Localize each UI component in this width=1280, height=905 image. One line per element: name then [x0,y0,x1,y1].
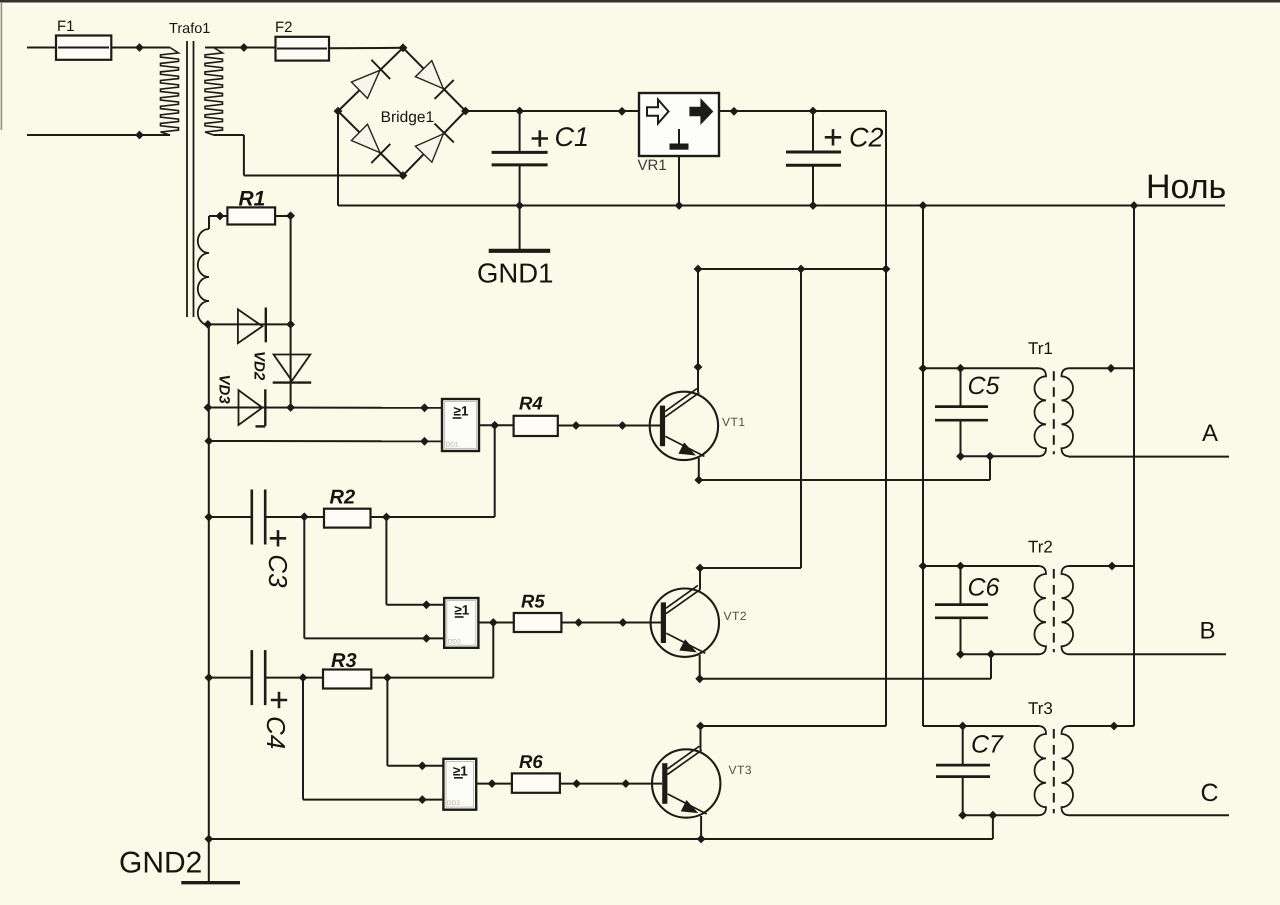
svg-text:VD3: VD3 [216,375,233,405]
node Tr3 secondary top pin [1110,722,1119,731]
svg-text:Tr1: Tr1 [1028,339,1053,358]
wire phase A output [1069,456,1230,458]
wire DD1 feedback drop [494,425,496,517]
node R1 right pin [286,211,295,220]
wire R1 right corner [275,216,291,408]
node VD3 anode junction [204,403,213,412]
node bus C3 junction [204,513,213,522]
node DD2 input1 pin [422,600,431,609]
node bridge left vertex [334,107,343,116]
svg-text:Trafo1: Trafo1 [169,21,210,37]
label Noll [1146,168,1226,206]
wire C2 bottom stub [812,165,814,205]
transformer Trafo1 primary winding [161,48,179,136]
node C4 right junction [299,673,308,682]
node C7 bottom junction [958,811,967,820]
wire Tr3 secondary top [1069,725,1135,727]
svg-text:VR1: VR1 [638,157,667,174]
voltage regulator VR1 [638,93,720,174]
wire Tr1 secondary top [1069,367,1135,369]
node C6 bottom junction [956,650,965,659]
wire neutral drop x1134 [1133,206,1135,727]
wire DD2 input1 tap [386,517,444,605]
node VT1 emitter feed junction [986,452,995,461]
node GND2 bus left junction [204,835,213,844]
diode VD1 [238,308,266,344]
wire DD2 output [478,622,513,624]
svg-text:R3: R3 [331,650,357,672]
svg-text:Tr3: Tr3 [1028,699,1053,718]
node VT1 collector top [694,265,703,274]
wire DD1 input1 [208,407,443,409]
node Tr2 top junction [919,562,928,571]
wire secondary1 to bridge bottom [244,135,403,176]
svg-text:≥1: ≥1 [453,763,468,778]
ground GND2 [119,847,240,883]
svg-text:VT2: VT2 [724,609,748,623]
node DD1 output junction [490,421,499,430]
wire Tr2 top left [923,565,1039,567]
resistor R1 [227,188,275,225]
svg-text:R4: R4 [519,393,543,414]
wire F2 to bridge top [329,47,403,50]
wire Tr1 top left [923,367,1039,369]
wire DD2 feedback drop [492,623,494,678]
node bridge bottom vertex [399,171,408,180]
node R5 right pin [574,618,583,627]
wire C6 top stub [960,566,962,604]
node C7 top junction [958,722,967,731]
node VT3 emitter feed junction [989,811,998,820]
node R1 left pin [216,212,225,221]
node DD2 input2 pin [422,634,431,643]
resistor R6 [512,751,560,793]
node junction Trafo1 secondary top [240,43,249,52]
node VT3 base pin [621,779,630,788]
wire R5 to VT2 base [561,622,661,624]
node VT1 base pin [618,421,627,430]
transformer Tr3 [1028,699,1073,815]
wire C3 to R2 [265,516,324,518]
label phase B [1200,618,1216,645]
wire collector feed y269 [698,268,886,270]
wire bridge left vertex to ground bus [337,111,339,205]
node VT1 collector pin [694,363,703,372]
wire VR1 ground stub [678,156,680,206]
wire bus to C3 [209,516,252,518]
node VT1 emitter junction [694,476,703,485]
node C2 bottom junction [809,201,818,210]
wire C1 top stub [519,111,521,152]
node bus input2 junction [204,437,213,446]
transformer Tr2 [1028,538,1073,655]
wire R2 right [371,516,495,518]
transistor VT3 [652,746,752,818]
capacitor C4 [252,650,291,749]
wire R4 to VT1 base [558,425,660,427]
wire R1 left [209,216,227,229]
svg-text:C4: C4 [261,716,291,749]
transistor VT1 [650,389,746,460]
resistor R4 [514,393,558,437]
node C6 top junction [956,562,965,571]
wire Tr2 secondary top [1069,565,1135,567]
node winding2 bottom junction [204,320,213,329]
node R4 right pin [572,421,581,430]
transformer Trafo1 core [187,41,194,317]
wire Tr3 bottom left [963,814,1039,816]
node bridge top vertex [399,43,408,52]
wire bus to C4 [209,677,252,679]
wire C5 bottom stub [960,420,962,456]
wire AC line 1 left segment [27,47,170,49]
fuse F2 [275,19,329,61]
svg-text:F1: F1 [57,18,75,35]
svg-text:C: C [1201,779,1219,807]
capacitor C1 [492,122,589,165]
svg-text:Ноль: Ноль [1146,168,1226,206]
capacitor C5 [935,372,1000,420]
node Tr2 secondary top pin [1108,562,1117,571]
wire VT2 feed [700,269,801,590]
svg-text:Bridge1: Bridge1 [381,109,434,126]
node VT2 collector pin [696,564,705,573]
svg-text:Tr2: Tr2 [1028,538,1053,557]
capacitor C3 [252,490,293,589]
ground GND1 [477,206,553,289]
node C2 top junction [809,107,818,116]
resistor R3 [323,650,371,689]
diode VD3 [216,375,266,427]
node VT3 emitter junction [697,835,706,844]
node VR1 ground junction [675,201,684,210]
wire neutral drop x923 [923,206,1039,727]
wire C5 top stub [960,368,962,406]
node R3 right junction [383,673,392,682]
wire VT2 emitter [700,654,991,679]
transformer Trafo1 secondary winding 2 [198,229,209,325]
wire left bus x209 [208,324,210,882]
capacitor C6 [935,574,1000,618]
transformer Tr1 [1028,339,1073,456]
svg-text:R6: R6 [519,751,543,772]
wire VT3 emitter [700,816,702,839]
node DD3 input2 pin [418,795,427,804]
node junction Trafo1 primary top [135,43,144,52]
diode bridge bottom-left [351,124,390,163]
svg-text:F2: F2 [275,19,293,36]
svg-text:GND2: GND2 [119,847,202,880]
node VT2 emitter feed junction [987,650,996,659]
wire Tr2 bottom left [961,653,1040,655]
node collector feed junction [882,265,891,274]
wire C4 to R3 [265,677,323,679]
wire positive rail [466,110,887,112]
wire Trafo1 secondary1 bottom [214,134,244,136]
wire DD1 output [479,424,514,426]
node C1 top junction [515,107,524,116]
wire R6 to VT3 base [560,783,662,785]
wire phase B output [1069,653,1227,655]
wire DD2 input2 tap [304,517,444,639]
node junction Trafo1 primary bottom [135,131,144,140]
svg-text:VT1: VT1 [722,415,746,429]
svg-text:B: B [1200,618,1216,645]
wire DD1 input2 [209,440,443,442]
svg-text:≥1: ≥1 [454,603,469,618]
label phase C [1201,779,1219,807]
wire phase C output [1069,814,1230,816]
node VT2 base pin [619,618,628,627]
diode bridge top-right [415,61,453,99]
svg-text:VT3: VT3 [729,763,753,777]
diode bridge bottom-right [415,124,453,163]
capacitor C7 [936,731,1004,777]
wire DD3 output [476,783,512,785]
capacitor C2 [786,123,884,166]
node neutral drop junction [919,201,928,210]
svg-text:GND1: GND1 [477,258,553,289]
bridge rectifier Bridge1 outline [338,48,466,176]
node DD1 input2 pin [420,437,429,446]
svg-text:≥1: ≥1 [454,404,469,419]
wire DD3 input2 tap [303,678,443,800]
wire GND2 bus [209,815,993,839]
node DD3 output junction [488,779,497,788]
resistor R5 [514,591,562,633]
logic gate DD2 [444,598,478,648]
wire C1 bottom stub [519,165,521,206]
node DD1 input1 pin [420,403,429,412]
node neutral right drop junction [1130,201,1139,210]
node Tr1 secondary top pin [1107,364,1116,373]
label Bridge1 [381,109,434,126]
node R2 right junction [382,513,391,522]
label phase A [1202,420,1218,447]
wire neutral bus Noll [338,205,1225,207]
node C5 top junction [956,364,965,373]
wire VT1 collector [697,269,699,393]
node C5 bottom junction [956,452,965,461]
wire R3 right [371,677,493,679]
wire VT1 emitter [699,456,990,480]
svg-text:C7: C7 [971,731,1004,759]
svg-text:DD2: DD2 [448,638,461,645]
node bus C4 junction [204,673,213,682]
svg-text:C5: C5 [968,372,1000,400]
node bridge right vertex [461,107,470,116]
node C3 right junction [300,512,309,521]
svg-text:VD2: VD2 [251,351,268,381]
node VD3 cathode junction [286,403,295,412]
node Tr1 top junction [919,364,928,373]
wire supply drop x886 [885,111,887,726]
logic gate DD3 [443,759,476,810]
wire DD3 input1 tap [387,678,443,766]
svg-text:A: A [1202,420,1218,447]
svg-text:DD3: DD3 [447,800,460,807]
wire C6 bottom stub [960,618,962,655]
wire C2 top stub [812,111,814,152]
svg-text:R5: R5 [521,591,545,612]
svg-text:C2: C2 [849,123,884,153]
wire VT3 collector [701,726,887,750]
svg-text:C6: C6 [968,574,1000,602]
wire Trafo1 secondary1 top to F2 [205,47,276,49]
diode VD2 [251,351,312,383]
svg-text:R2: R2 [330,487,356,509]
fuse F1 [56,18,111,60]
wire C7 bottom stub [962,777,964,816]
svg-text:DD1: DD1 [446,442,459,449]
node VT2 emitter junction [695,674,704,683]
wire Tr1 bottom left [961,455,1040,457]
node VR1 input junction [618,107,627,116]
wire VD1 anode wire [208,323,291,325]
node DD2 output junction [489,618,498,627]
node VT3 collector pin [696,722,705,731]
node R6 right pin [572,779,581,788]
svg-text:C1: C1 [555,122,590,152]
logic gate DD1 [442,399,479,451]
wire C7 top stub [962,726,964,765]
node VD1 cathode junction [286,320,295,329]
node GND1 junction [515,201,524,210]
transformer Trafo1 secondary winding 1 [205,48,223,136]
svg-text:R1: R1 [239,188,266,211]
svg-text:C3: C3 [263,554,293,588]
node VR1 output junction [730,107,739,116]
diode bridge top-left [351,60,390,99]
node DD3 input1 pin [418,761,427,770]
resistor R2 [324,487,371,528]
node VT2 feed tap [797,265,806,274]
wire AC line 2 left segment [27,134,170,136]
label Trafo1 [169,21,210,37]
transistor VT2 [651,585,747,657]
